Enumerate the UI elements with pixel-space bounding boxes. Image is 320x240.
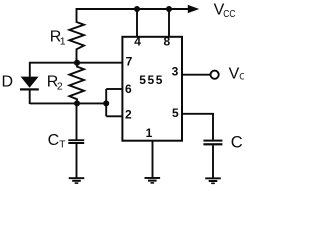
svg-text:T: T xyxy=(59,140,65,151)
svg-text:7: 7 xyxy=(126,54,133,68)
svg-text:555: 555 xyxy=(139,73,164,87)
svg-text:D: D xyxy=(2,73,14,90)
svg-text:8: 8 xyxy=(163,35,170,49)
svg-text:4: 4 xyxy=(134,35,141,49)
svg-text:O: O xyxy=(239,72,244,82)
svg-text:V: V xyxy=(229,66,240,83)
svg-text:2: 2 xyxy=(57,80,63,92)
svg-text:1: 1 xyxy=(60,35,66,47)
svg-text:5: 5 xyxy=(172,106,179,120)
svg-text:CC: CC xyxy=(223,8,236,20)
svg-text:C: C xyxy=(231,134,243,152)
svg-text:2: 2 xyxy=(125,107,132,121)
svg-text:1: 1 xyxy=(146,126,153,140)
svg-text:6: 6 xyxy=(125,82,132,96)
svg-text:3: 3 xyxy=(172,65,179,79)
svg-text:C: C xyxy=(48,132,60,149)
